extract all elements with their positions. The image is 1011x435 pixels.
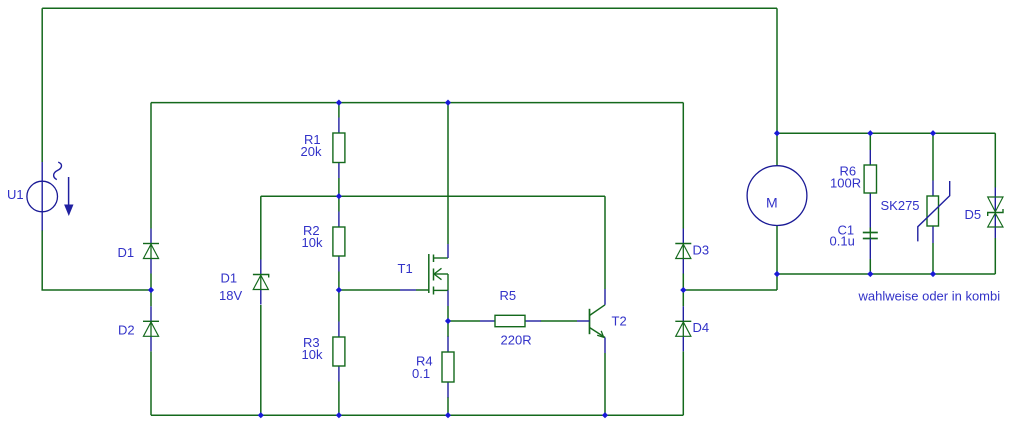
label 10k (R2) xyxy=(302,235,323,250)
resistor R3 xyxy=(333,322,345,382)
node SK275 bottom xyxy=(930,271,936,277)
wire inner left lower (D2 to bottom rail) xyxy=(150,351,152,415)
label D2 xyxy=(118,323,135,338)
wire inner bottom rail xyxy=(151,414,683,416)
label 0.1u xyxy=(830,234,855,249)
wire inner top rail xyxy=(151,102,683,104)
motor M xyxy=(747,166,807,226)
node R4 bottom xyxy=(445,412,451,418)
wire motor top lead xyxy=(776,133,778,166)
label 18V xyxy=(219,288,242,303)
wire node to D4 top xyxy=(682,290,684,306)
capacitor C1 xyxy=(863,233,878,260)
node R1/R2 mid rail xyxy=(336,193,342,199)
label R1 xyxy=(304,132,321,147)
svg-text:100R: 100R xyxy=(830,176,861,191)
svg-text:0.1: 0.1 xyxy=(412,366,430,381)
diode D2 xyxy=(143,306,159,351)
label 0.1 xyxy=(412,366,430,381)
svg-text:D3: D3 xyxy=(693,243,710,258)
svg-text:U1: U1 xyxy=(7,187,24,202)
wire D3/D4 node to motor branch xyxy=(683,274,777,290)
label R5 xyxy=(500,288,517,303)
node motor bottom xyxy=(774,271,780,277)
wire inner right upper (top rail to D3) xyxy=(682,103,684,229)
wire R4 top lead xyxy=(447,321,449,337)
note wahlweise oder in kombi xyxy=(858,289,1001,304)
wire snubber top rail xyxy=(777,132,995,134)
label D1 xyxy=(118,245,135,260)
svg-text:18V: 18V xyxy=(219,288,242,303)
label R4 xyxy=(416,354,433,369)
diode D4 xyxy=(675,306,691,351)
wire R5 to T2 base xyxy=(541,320,578,322)
label M xyxy=(766,195,778,211)
wire left outer vertical lower xyxy=(41,230,43,290)
wire T1 drain vertical xyxy=(447,103,449,244)
wire R4 bottom lead xyxy=(447,397,449,415)
wire D1 bottom to node xyxy=(150,274,152,291)
wire C1 bottom stub xyxy=(869,259,871,274)
wire motor bottom lead xyxy=(776,226,778,275)
svg-text:20k: 20k xyxy=(301,144,322,159)
mosfet T1 xyxy=(400,244,448,306)
label D5 xyxy=(965,207,982,222)
node R1 top xyxy=(336,100,342,106)
wire inner right lower (D4 to bottom rail) xyxy=(682,351,684,415)
svg-text:D2: D2 xyxy=(118,323,135,338)
wire SK275 top stub xyxy=(932,133,934,180)
label T1 xyxy=(398,261,413,276)
wire R6-C1 link stub xyxy=(869,228,871,233)
diode D3 xyxy=(675,229,691,274)
node C1 bottom xyxy=(867,271,873,277)
wire zener branch upper xyxy=(260,196,262,259)
wire node to D2 top xyxy=(150,290,152,306)
node R2/R3 gate xyxy=(336,287,342,293)
wire R6 branch top stub xyxy=(869,133,871,150)
svg-text:0.1u: 0.1u xyxy=(830,234,855,249)
label T2 xyxy=(612,314,627,329)
voltage source U1 xyxy=(27,162,74,231)
label C1 xyxy=(838,223,855,238)
wire R3 bottom lead xyxy=(338,382,340,416)
wire U1 to D1/D2 node xyxy=(41,289,151,291)
svg-text:D1: D1 xyxy=(118,245,135,260)
varistor SK275 xyxy=(918,181,950,244)
label D4 xyxy=(693,320,710,335)
wire R1 bottom lead xyxy=(338,178,340,196)
resistor R5 xyxy=(480,315,541,326)
wire SK275 bottom stub xyxy=(932,243,934,274)
svg-text:10k: 10k xyxy=(302,235,323,250)
node R6 top xyxy=(867,130,873,136)
node T2 emitter bottom xyxy=(602,412,608,418)
svg-text:T1: T1 xyxy=(398,261,413,276)
svg-text:M: M xyxy=(766,195,778,211)
label SK275 xyxy=(881,198,920,213)
label U1 xyxy=(7,187,24,202)
wire D5 branch lower xyxy=(994,238,996,274)
wire T2 emitter vertical xyxy=(604,353,606,415)
diode D1 xyxy=(143,229,159,274)
node D3/D4 xyxy=(680,287,686,293)
wire R3 top lead xyxy=(338,290,340,322)
label D3 xyxy=(693,243,710,258)
svg-text:R5: R5 xyxy=(500,288,517,303)
node D1/D2 xyxy=(148,287,154,293)
label 220R xyxy=(501,333,532,348)
wire outer right vertical xyxy=(776,8,778,133)
wire R1 top lead xyxy=(338,103,340,118)
node SK275 top xyxy=(930,130,936,136)
resistor R6 xyxy=(864,150,876,228)
node R3 bottom xyxy=(336,412,342,418)
wire D3 bottom to node xyxy=(682,274,684,291)
wire mid rail (zener to T2 collector) xyxy=(261,195,605,197)
label R3 xyxy=(303,335,320,350)
svg-text:220R: 220R xyxy=(501,333,532,348)
wire gate rail xyxy=(339,289,429,291)
wire left outer vertical upper xyxy=(41,8,43,162)
suppressor diode D5 xyxy=(988,188,1003,239)
node T1 drain top xyxy=(445,100,451,106)
resistor R2 xyxy=(333,212,345,272)
wire T2 collector vertical xyxy=(604,196,606,289)
node motor top xyxy=(774,130,780,136)
label D1 (zener) xyxy=(221,271,238,286)
label 10k (R3) xyxy=(302,347,323,362)
svg-text:SK275: SK275 xyxy=(881,198,920,213)
svg-text:D5: D5 xyxy=(965,207,982,222)
label R2 xyxy=(303,223,320,238)
svg-text:T2: T2 xyxy=(612,314,627,329)
svg-text:wahlweise oder in kombi: wahlweise oder in kombi xyxy=(858,289,1001,304)
wire T1 source to node xyxy=(447,306,449,321)
node zener bottom xyxy=(258,412,264,418)
wire node to R5 xyxy=(448,320,480,322)
resistor R4 xyxy=(442,337,454,398)
wire D5 branch upper xyxy=(994,133,996,187)
svg-text:10k: 10k xyxy=(302,347,323,362)
label R6 xyxy=(840,164,857,179)
resistor R1 xyxy=(333,118,345,179)
transistor T2 xyxy=(577,289,605,353)
node T1 source / R4 / R5 xyxy=(445,318,451,324)
wire outer top rail xyxy=(42,7,777,9)
zener diode D1 18V xyxy=(253,260,269,305)
wire inner left edge xyxy=(150,103,152,229)
svg-text:D4: D4 xyxy=(693,320,710,335)
wire R2 top lead xyxy=(338,196,340,211)
wire snubber bottom rail xyxy=(777,273,995,275)
wire R2 bottom lead xyxy=(338,272,340,291)
label 20k xyxy=(301,144,322,159)
label 100R xyxy=(830,176,861,191)
wire zener branch lower xyxy=(260,305,262,415)
svg-text:D1: D1 xyxy=(221,271,238,286)
